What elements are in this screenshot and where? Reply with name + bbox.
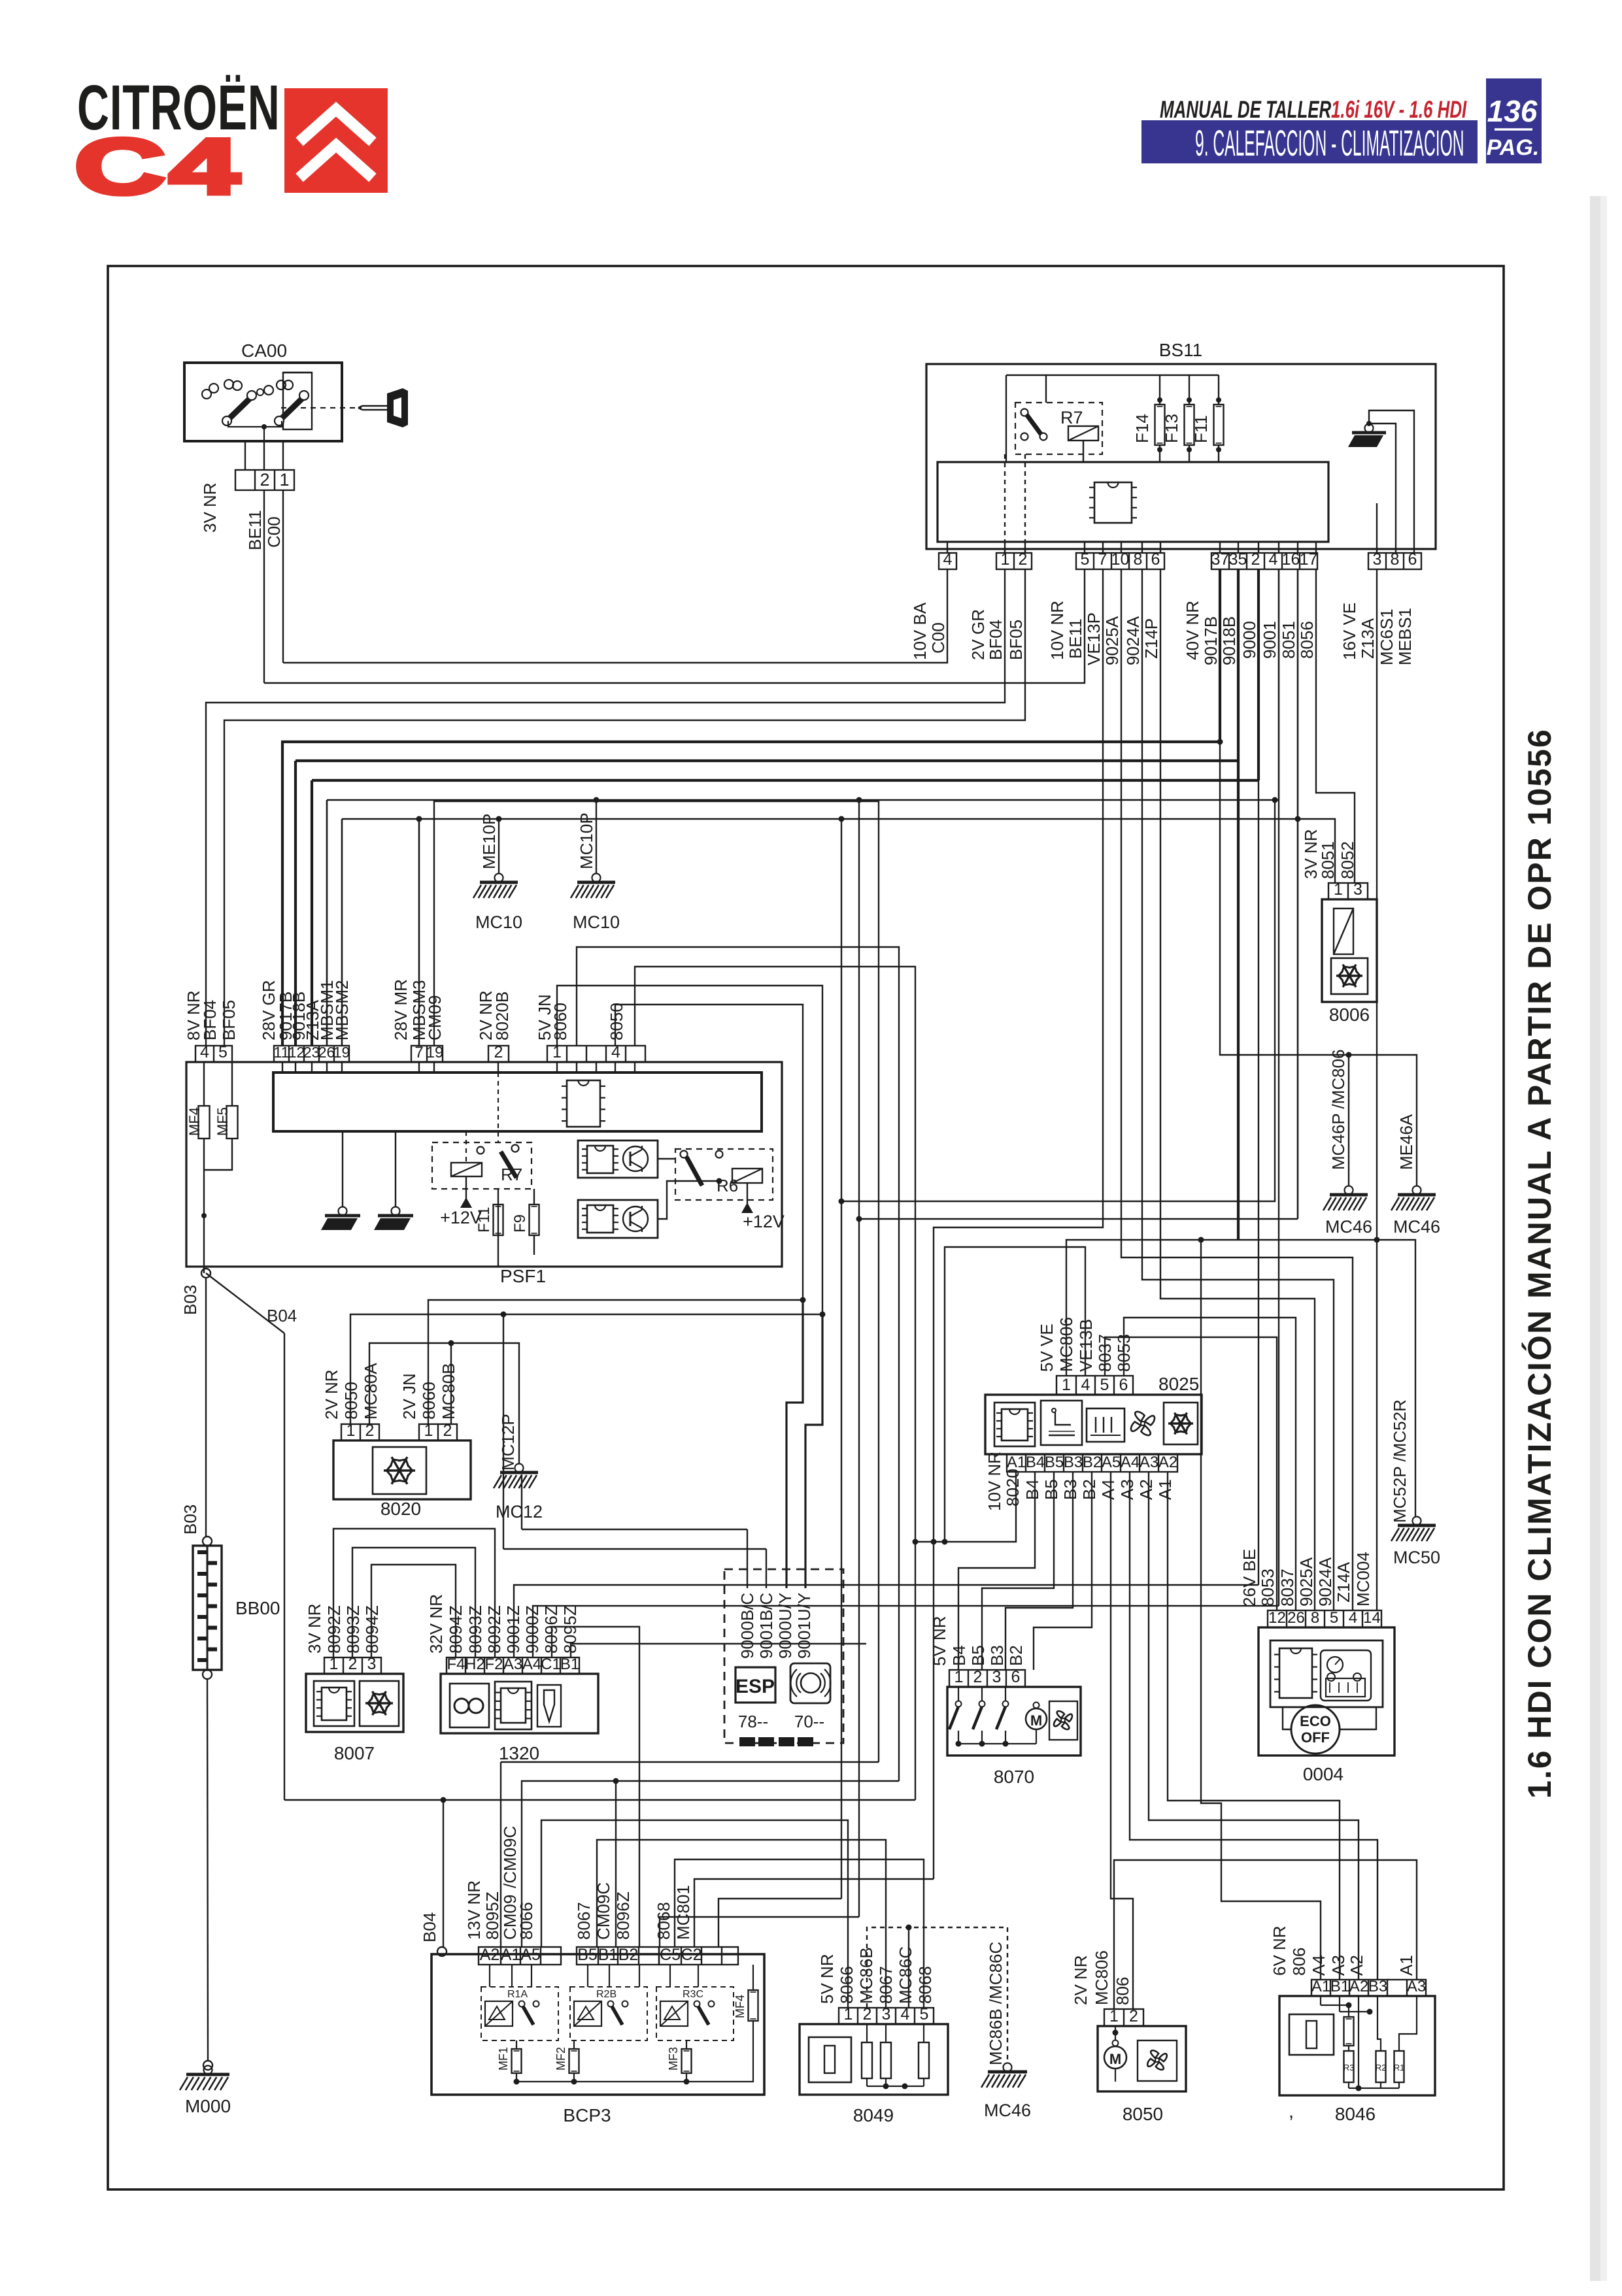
- svg-text:R7: R7: [1060, 408, 1083, 427]
- svg-text:B2: B2: [618, 1946, 639, 1964]
- svg-text:9001B/C: 9001B/C: [756, 1593, 776, 1659]
- svg-text:2: 2: [443, 1422, 452, 1440]
- svg-text:MC46P /MC806: MC46P /MC806: [1328, 1050, 1348, 1171]
- svg-text:10: 10: [1111, 550, 1130, 569]
- svg-text:1320: 1320: [499, 1743, 539, 1763]
- svg-text:B03: B03: [180, 1285, 200, 1315]
- svg-text:8006: 8006: [1329, 1005, 1370, 1025]
- svg-text:R6: R6: [717, 1176, 738, 1195]
- svg-text:8050: 8050: [607, 1003, 626, 1040]
- svg-text:9024A: 9024A: [1123, 616, 1143, 665]
- svg-text:2: 2: [348, 1655, 358, 1673]
- svg-text:CA00: CA00: [241, 341, 287, 361]
- svg-text:8037: 8037: [1277, 1569, 1297, 1606]
- svg-text:10V NR: 10V NR: [985, 1452, 1004, 1511]
- svg-text:9024A: 9024A: [1315, 1557, 1335, 1606]
- svg-text:2: 2: [1251, 550, 1260, 569]
- svg-text:MC004: MC004: [1353, 1552, 1373, 1606]
- svg-text:5: 5: [218, 1043, 228, 1061]
- svg-text:/CM09C: /CM09C: [500, 1826, 520, 1888]
- svg-text:6: 6: [1119, 1376, 1128, 1394]
- svg-text:MC12: MC12: [496, 1502, 543, 1522]
- svg-text:C00: C00: [928, 622, 948, 654]
- svg-text:1: 1: [346, 1422, 356, 1440]
- svg-text:6: 6: [1011, 1668, 1021, 1686]
- svg-text:8066: 8066: [516, 1902, 536, 1940]
- svg-text:5: 5: [1081, 550, 1090, 569]
- svg-text:6: 6: [1151, 550, 1160, 569]
- svg-text:Z14A: Z14A: [1334, 1561, 1353, 1603]
- svg-text:26V BE: 26V BE: [1240, 1549, 1259, 1606]
- svg-text:F11: F11: [475, 1206, 493, 1233]
- svg-text:13V NR: 13V NR: [464, 1880, 484, 1940]
- svg-text:1.6 HDI CON CLIMATIZACIÓN MANU: 1.6 HDI CON CLIMATIZACIÓN MANUAL A PARTI…: [1521, 728, 1558, 1799]
- svg-text:R2B: R2B: [596, 1989, 617, 2000]
- svg-text:MC46: MC46: [1393, 1217, 1440, 1237]
- svg-text:A1: A1: [1155, 1479, 1175, 1500]
- svg-text:8051: 8051: [1279, 621, 1298, 659]
- svg-text:BCP3: BCP3: [563, 2105, 611, 2125]
- svg-text:C1: C1: [541, 1655, 561, 1673]
- svg-text:1: 1: [329, 1655, 339, 1673]
- svg-text:7: 7: [1098, 550, 1107, 569]
- svg-text:MF2: MF2: [554, 2047, 567, 2071]
- svg-text:9001: 9001: [1260, 621, 1279, 659]
- svg-text:8068: 8068: [915, 1966, 935, 2004]
- svg-text:8049: 8049: [853, 2105, 894, 2125]
- svg-text:7: 7: [414, 1044, 423, 1061]
- svg-text:B1: B1: [560, 1655, 579, 1673]
- svg-text:8: 8: [1391, 550, 1400, 569]
- svg-text:BS11: BS11: [1159, 340, 1202, 360]
- svg-text:B5: B5: [1045, 1454, 1064, 1471]
- svg-text:B1: B1: [1330, 1978, 1349, 1995]
- svg-text:B5: B5: [577, 1946, 598, 1964]
- svg-text:9000U/Y: 9000U/Y: [775, 1593, 795, 1659]
- svg-text:8046: 8046: [1335, 2104, 1376, 2124]
- svg-text:78--: 78--: [738, 1712, 768, 1731]
- svg-text:B2: B2: [1079, 1479, 1099, 1500]
- svg-text:MC46: MC46: [1325, 1217, 1372, 1237]
- svg-text:B1: B1: [598, 1946, 618, 1964]
- svg-text:3V NR: 3V NR: [200, 482, 220, 533]
- svg-text:A3: A3: [1140, 1454, 1158, 1471]
- svg-text:8052: 8052: [1338, 841, 1357, 879]
- svg-text:,: ,: [1289, 2101, 1294, 2122]
- svg-text:6V NR: 6V NR: [1270, 1925, 1289, 1976]
- svg-text:32V NR: 32V NR: [426, 1594, 446, 1654]
- svg-text:MC801: MC801: [673, 1885, 693, 1940]
- svg-text:A2: A2: [1136, 1479, 1156, 1500]
- svg-text:A2: A2: [1158, 1454, 1177, 1471]
- svg-text:VE13B: VE13B: [1076, 1319, 1096, 1372]
- svg-text:8: 8: [1311, 1609, 1319, 1627]
- svg-text:12: 12: [1268, 1609, 1286, 1627]
- svg-text:3: 3: [1373, 550, 1382, 569]
- svg-text:BF04: BF04: [986, 620, 1005, 660]
- svg-text:C2: C2: [681, 1946, 702, 1964]
- svg-text:8053: 8053: [1114, 1334, 1134, 1372]
- svg-text:2: 2: [1019, 550, 1028, 569]
- svg-text:9018B: 9018B: [1219, 616, 1239, 665]
- svg-text:MC86C: MC86C: [896, 1946, 915, 2004]
- svg-text:2V GR: 2V GR: [968, 609, 988, 660]
- svg-text:MC6S1: MC6S1: [1377, 608, 1396, 665]
- svg-text:R1: R1: [1394, 2063, 1405, 2072]
- svg-text:VE13P: VE13P: [1084, 612, 1104, 665]
- svg-text:19: 19: [426, 1044, 444, 1061]
- svg-text:1.6i 16V - 1.6 HDI: 1.6i 16V - 1.6 HDI: [1331, 95, 1467, 123]
- svg-text:ECO: ECO: [1300, 1713, 1331, 1729]
- svg-text:BB00: BB00: [235, 1598, 280, 1618]
- svg-text:MF3: MF3: [667, 2047, 680, 2071]
- svg-text:5: 5: [920, 2005, 929, 2023]
- svg-text:A1: A1: [1396, 1955, 1416, 1976]
- svg-text:28V MR: 28V MR: [391, 979, 411, 1040]
- svg-text:A2: A2: [1349, 1978, 1368, 1995]
- svg-text:MF1: MF1: [497, 2047, 510, 2071]
- svg-text:MC10: MC10: [573, 912, 620, 932]
- svg-text:2V NR: 2V NR: [1071, 1955, 1090, 2005]
- svg-text:35: 35: [1229, 550, 1247, 569]
- svg-text:8050: 8050: [1123, 2104, 1163, 2124]
- svg-text:1: 1: [552, 1043, 562, 1061]
- svg-text:9000: 9000: [1240, 621, 1259, 659]
- svg-text:MC86B /MC86C: MC86B /MC86C: [986, 1942, 1005, 2065]
- svg-text:1: 1: [279, 470, 289, 490]
- svg-text:B2: B2: [1083, 1454, 1102, 1471]
- svg-text:R3C: R3C: [683, 1989, 703, 2000]
- svg-text:C5: C5: [660, 1946, 681, 1964]
- svg-text:M: M: [1109, 2051, 1121, 2067]
- svg-text:ESP: ESP: [735, 1676, 775, 1697]
- svg-text:8025: 8025: [1158, 1374, 1199, 1394]
- svg-text:F11: F11: [1191, 415, 1211, 443]
- svg-text:BF05: BF05: [219, 1000, 239, 1040]
- svg-text:A5: A5: [1102, 1454, 1121, 1471]
- svg-text:26: 26: [1287, 1609, 1305, 1627]
- svg-text:0004: 0004: [1303, 1764, 1343, 1784]
- svg-text:A2: A2: [480, 1946, 500, 1964]
- svg-text:4: 4: [1349, 1609, 1357, 1627]
- svg-text:1: 1: [1334, 880, 1343, 899]
- svg-text:8095Z: 8095Z: [482, 1891, 502, 1940]
- svg-text:10V BA: 10V BA: [910, 602, 930, 660]
- svg-text:8007: 8007: [334, 1743, 375, 1763]
- svg-text:1: 1: [1109, 2007, 1119, 2025]
- svg-text:3: 3: [992, 1668, 1002, 1686]
- svg-text:C4: C4: [75, 122, 243, 210]
- svg-text:MC46: MC46: [984, 2101, 1031, 2120]
- svg-text:A4: A4: [1121, 1454, 1140, 1471]
- svg-text:MF5: MF5: [214, 1107, 231, 1136]
- svg-text:8051: 8051: [1318, 841, 1338, 879]
- svg-text:BE11: BE11: [245, 510, 265, 550]
- svg-text:MC52P /MC52R: MC52P /MC52R: [1390, 1399, 1410, 1523]
- svg-text:9025A: 9025A: [1296, 1557, 1316, 1606]
- svg-text:2: 2: [973, 1668, 983, 1686]
- svg-text:8066: 8066: [837, 1966, 856, 2004]
- svg-text:B3: B3: [1368, 1978, 1387, 1995]
- svg-text:8037: 8037: [1095, 1334, 1115, 1372]
- svg-text:B5: B5: [968, 1645, 988, 1666]
- svg-text:136: 136: [1487, 94, 1538, 128]
- svg-text:806: 806: [1113, 1977, 1132, 2005]
- svg-text:MC50: MC50: [1393, 1548, 1440, 1567]
- svg-text:C00: C00: [264, 516, 284, 548]
- svg-text:B4: B4: [1022, 1479, 1042, 1500]
- svg-text:8020B: 8020B: [492, 991, 512, 1040]
- svg-text:4: 4: [901, 2005, 910, 2023]
- svg-text:5V VE: 5V VE: [1037, 1323, 1056, 1372]
- svg-text:MC806: MC806: [1056, 1317, 1076, 1372]
- svg-text:R3: R3: [1343, 2063, 1355, 2072]
- svg-text:9000B/C: 9000B/C: [737, 1593, 757, 1659]
- svg-text:F2: F2: [484, 1655, 503, 1673]
- svg-text:4: 4: [943, 550, 953, 569]
- svg-text:4: 4: [200, 1043, 209, 1061]
- svg-text:8070: 8070: [994, 1767, 1034, 1787]
- svg-text:B04: B04: [420, 1912, 439, 1942]
- svg-text:B3: B3: [987, 1645, 1007, 1666]
- svg-text:4: 4: [611, 1043, 620, 1061]
- svg-text:40V NR: 40V NR: [1183, 601, 1202, 660]
- svg-text:A3: A3: [503, 1655, 522, 1673]
- svg-text:MC10P: MC10P: [577, 812, 596, 869]
- svg-text:2: 2: [863, 2005, 872, 2023]
- svg-text:H2: H2: [465, 1655, 485, 1673]
- svg-text:9001U/Y: 9001U/Y: [794, 1593, 814, 1659]
- svg-text:OFF: OFF: [1301, 1729, 1330, 1746]
- svg-text:11: 11: [274, 1044, 290, 1061]
- svg-text:14: 14: [1363, 1609, 1381, 1627]
- svg-text:PSF1: PSF1: [500, 1266, 546, 1286]
- svg-text:70--: 70--: [794, 1712, 824, 1731]
- svg-text:8060: 8060: [550, 1003, 570, 1040]
- svg-text:M: M: [1030, 1712, 1042, 1729]
- svg-text:MBSM2: MBSM2: [332, 980, 352, 1040]
- svg-text:2: 2: [1129, 2007, 1138, 2025]
- svg-text:2: 2: [260, 470, 269, 490]
- svg-text:26: 26: [318, 1044, 335, 1061]
- svg-text:MEBS1: MEBS1: [1395, 608, 1415, 665]
- svg-text:BF05: BF05: [1006, 620, 1026, 660]
- svg-text:BE11: BE11: [1066, 618, 1085, 659]
- svg-text:19: 19: [333, 1044, 350, 1061]
- svg-text:A4: A4: [522, 1655, 541, 1673]
- svg-text:A4: A4: [1098, 1479, 1118, 1500]
- svg-text:A3: A3: [1117, 1479, 1137, 1500]
- svg-text:B3: B3: [1064, 1454, 1083, 1471]
- svg-text:8020: 8020: [1003, 1469, 1022, 1506]
- svg-text:A3: A3: [1328, 1955, 1348, 1976]
- svg-text:5: 5: [1330, 1609, 1338, 1627]
- svg-text:2: 2: [494, 1043, 503, 1061]
- svg-text:1: 1: [1001, 550, 1010, 569]
- svg-text:F13: F13: [1162, 414, 1181, 443]
- svg-text:806: 806: [1289, 1948, 1309, 1976]
- svg-text:F9: F9: [511, 1214, 529, 1233]
- svg-text:3: 3: [882, 2005, 891, 2023]
- svg-text:MC10: MC10: [475, 912, 522, 932]
- svg-text:A3: A3: [1407, 1978, 1426, 1995]
- svg-text:8056: 8056: [1297, 621, 1317, 659]
- svg-text:9025A: 9025A: [1102, 616, 1122, 665]
- svg-text:23: 23: [303, 1044, 320, 1061]
- svg-text:9. CALEFACCION - CLIMATIZACION: 9. CALEFACCION - CLIMATIZACION: [1195, 124, 1464, 164]
- svg-text:A1: A1: [1311, 1978, 1330, 1995]
- svg-text:1: 1: [955, 1668, 964, 1686]
- svg-text:8067: 8067: [876, 1966, 896, 2004]
- svg-text:M000: M000: [185, 2096, 231, 2116]
- svg-text:5V NR: 5V NR: [930, 1616, 949, 1666]
- svg-text:8053: 8053: [1258, 1569, 1277, 1606]
- svg-text:3: 3: [1353, 880, 1362, 899]
- svg-text:8: 8: [1134, 550, 1143, 569]
- svg-text:16V VE: 16V VE: [1340, 603, 1359, 660]
- svg-text:1: 1: [1062, 1376, 1071, 1394]
- svg-text:6: 6: [1408, 550, 1417, 569]
- svg-text:16: 16: [1282, 550, 1300, 569]
- svg-text:3V NR: 3V NR: [305, 1603, 324, 1654]
- svg-text:MC80A: MC80A: [361, 1363, 380, 1420]
- svg-text:B04: B04: [267, 1306, 297, 1325]
- svg-text:MF4: MF4: [186, 1107, 203, 1136]
- svg-text:MC80B: MC80B: [439, 1363, 458, 1420]
- svg-text:17: 17: [1300, 550, 1318, 569]
- svg-text:5V NR: 5V NR: [817, 1954, 837, 2004]
- svg-text:4: 4: [1081, 1376, 1090, 1394]
- svg-text:MF4: MF4: [734, 1995, 747, 2018]
- svg-text:5: 5: [1100, 1376, 1109, 1394]
- svg-text:8020: 8020: [380, 1499, 421, 1519]
- svg-text:2V NR: 2V NR: [322, 1369, 341, 1420]
- svg-text:CM09: CM09: [425, 995, 445, 1040]
- svg-text:3: 3: [367, 1655, 377, 1673]
- svg-text:Z13A: Z13A: [1358, 618, 1377, 659]
- svg-text:8067: 8067: [574, 1902, 594, 1940]
- svg-text:1: 1: [424, 1422, 433, 1440]
- svg-text:B03: B03: [180, 1505, 200, 1535]
- svg-text:PAG.: PAG.: [1487, 135, 1540, 160]
- svg-text:2: 2: [365, 1422, 375, 1440]
- svg-text:2V JN: 2V JN: [399, 1373, 419, 1420]
- svg-text:9017B: 9017B: [1201, 616, 1221, 665]
- svg-text:MANUAL DE TALLER: MANUAL DE TALLER: [1160, 95, 1331, 123]
- svg-text:BF04: BF04: [200, 1000, 220, 1040]
- svg-text:1: 1: [844, 2005, 853, 2023]
- svg-text:+12V: +12V: [743, 1212, 785, 1231]
- svg-text:ME10P: ME10P: [479, 814, 499, 869]
- svg-text:F4: F4: [447, 1655, 465, 1673]
- svg-text:B4: B4: [1026, 1454, 1045, 1471]
- svg-text:A2: A2: [1347, 1955, 1366, 1976]
- svg-text:4: 4: [1269, 550, 1278, 569]
- svg-text:Z14P: Z14P: [1141, 618, 1161, 659]
- svg-text:A1: A1: [501, 1946, 521, 1964]
- svg-text:A5: A5: [520, 1946, 541, 1964]
- svg-text:B2: B2: [1006, 1645, 1026, 1666]
- svg-text:R1A: R1A: [507, 1989, 528, 2000]
- svg-text:A4: A4: [1309, 1955, 1328, 1976]
- svg-text:A1: A1: [1007, 1454, 1026, 1471]
- svg-text:8068: 8068: [654, 1902, 673, 1940]
- svg-text:ME46A: ME46A: [1396, 1114, 1416, 1170]
- svg-text:12: 12: [288, 1044, 305, 1061]
- svg-text:F14: F14: [1132, 414, 1152, 443]
- svg-text:B3: B3: [1060, 1479, 1080, 1500]
- svg-text:R2: R2: [1376, 2063, 1387, 2072]
- svg-text:MC806: MC806: [1092, 1950, 1111, 2005]
- svg-text:10V NR: 10V NR: [1047, 601, 1067, 660]
- svg-text:37: 37: [1211, 550, 1230, 569]
- svg-text:MC12P: MC12P: [498, 1414, 518, 1471]
- svg-text:B5: B5: [1041, 1479, 1061, 1500]
